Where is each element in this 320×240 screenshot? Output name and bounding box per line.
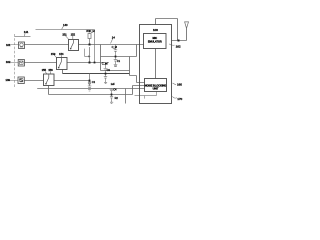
svg-text:141: 141	[24, 30, 29, 34]
svg-text:MIC: MIC	[153, 36, 158, 40]
svg-text:155: 155	[42, 68, 47, 72]
svg-text:170: 170	[177, 97, 182, 101]
svg-text:UNIT: UNIT	[153, 87, 159, 91]
svg-text:153: 153	[51, 52, 56, 56]
svg-text:C_MT: C_MT	[102, 62, 109, 66]
svg-text:162: 162	[176, 44, 181, 48]
svg-text:102: 102	[6, 60, 11, 64]
svg-text:156: 156	[48, 68, 53, 72]
svg-text:151: 151	[62, 33, 67, 37]
svg-text:1uF: 1uF	[111, 82, 116, 86]
svg-text:100: 100	[153, 28, 158, 32]
svg-text:C_M: C_M	[112, 45, 117, 49]
svg-text:140: 140	[63, 23, 68, 27]
svg-text:VDD_M: VDD_M	[86, 29, 95, 33]
svg-text:160: 160	[177, 82, 182, 86]
svg-text:154: 154	[59, 52, 64, 56]
svg-text:EMULATOR: EMULATOR	[148, 40, 162, 44]
svg-text:101: 101	[6, 43, 11, 47]
svg-text:152: 152	[71, 33, 76, 37]
svg-text:103: 103	[5, 78, 10, 82]
